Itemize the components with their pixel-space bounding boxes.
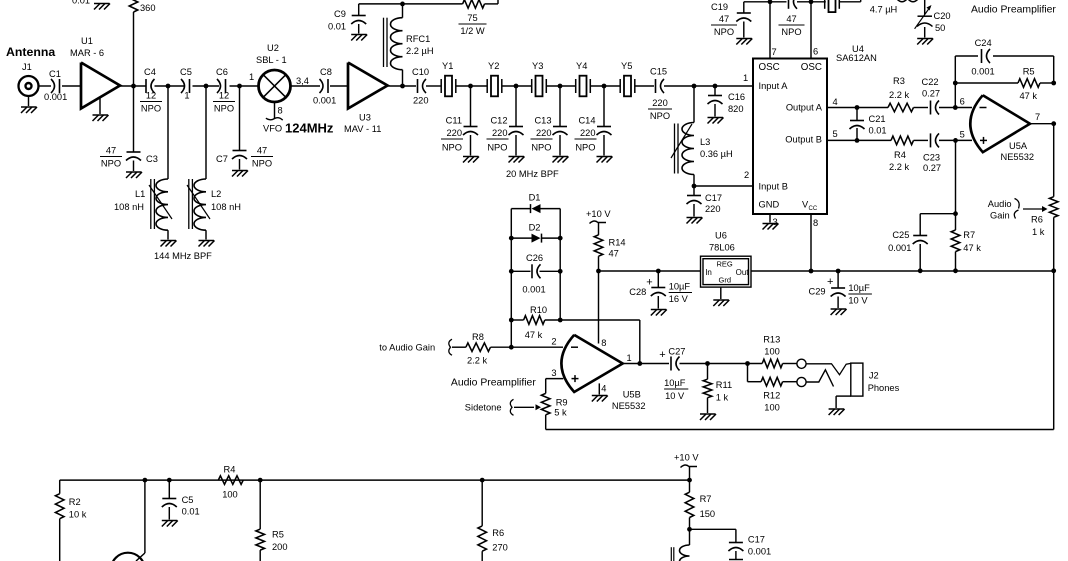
capacitor C7 47 NPO	[216, 146, 273, 169]
ground (U5B pin 4)	[592, 396, 608, 402]
pin 6 label (U5A)	[960, 97, 965, 107]
svg-text:220: 220	[705, 204, 721, 214]
svg-text:2.2 k: 2.2 k	[889, 162, 910, 172]
svg-text:100: 100	[764, 403, 780, 413]
wire Y3 to Y4	[546, 85, 575, 87]
wire U4 pin 4 to R3	[827, 97, 888, 108]
wire node to C3	[133, 86, 135, 152]
junction U5B pin2 node	[509, 345, 514, 350]
svg-text:J2: J2	[869, 371, 879, 381]
svg-text:0.27: 0.27	[922, 89, 940, 99]
wire C26 row	[511, 270, 560, 272]
wire node to C11	[470, 86, 472, 126]
svg-text:Grd: Grd	[719, 276, 732, 285]
svg-text:4.7 µH: 4.7 µH	[870, 5, 898, 15]
capacitor C23 0.27	[923, 133, 941, 173]
wire bottom return rail	[546, 429, 1054, 431]
svg-text:L2: L2	[211, 189, 221, 199]
capacitor C28 10uF 16V	[629, 276, 692, 304]
resistor R4 100 (bottom)	[218, 465, 243, 500]
wire U5A output	[1030, 123, 1054, 125]
junction R7b rail	[687, 478, 692, 483]
svg-text:C25: C25	[892, 230, 909, 240]
ground (C28)	[651, 296, 667, 316]
junction U1 output node	[131, 84, 136, 89]
pin 8 label (U5B)	[601, 338, 606, 348]
wire C22 to U5A pin 6	[939, 107, 972, 109]
wire J1 to C1	[39, 85, 52, 87]
svg-text:47 k: 47 k	[1020, 91, 1038, 101]
svg-text:R3: R3	[893, 76, 905, 86]
capacitor C15 220 NPO	[648, 67, 672, 122]
pin 2 label (U4)	[744, 170, 749, 180]
capacitor C21 0.01	[850, 114, 887, 136]
wire U5B pin 4 stub	[598, 383, 600, 394]
capacitor C22 0.27	[922, 77, 941, 115]
junction R10 left	[509, 318, 514, 323]
inductor L1 108 nH	[114, 179, 172, 230]
svg-text:47 k: 47 k	[525, 330, 543, 340]
junction C15/L3 node	[692, 84, 697, 89]
wire C28 stem	[657, 271, 659, 287]
svg-text:R7: R7	[700, 494, 712, 504]
svg-text:OSC: OSC	[759, 62, 780, 73]
label U5B NE5532	[612, 390, 646, 411]
wire R4 to C23	[914, 139, 929, 141]
op-amp U5A NE5532	[970, 95, 1034, 162]
svg-text:Input B: Input B	[759, 182, 788, 192]
junction R6 rail	[1051, 268, 1056, 273]
svg-text:NPO: NPO	[487, 143, 507, 153]
crystal Y2	[487, 61, 502, 96]
svg-text:12: 12	[146, 91, 156, 101]
wire C5b stem	[168, 480, 170, 498]
svg-text:+: +	[827, 276, 833, 288]
junction U5A pin6 node	[953, 105, 958, 110]
capacitor C25 0.001	[888, 230, 928, 253]
svg-text:C23: C23	[923, 153, 940, 163]
svg-text:0.01: 0.01	[869, 126, 887, 136]
svg-text:U1: U1	[81, 36, 93, 46]
svg-text:R5: R5	[1023, 67, 1035, 77]
svg-text:R13: R13	[763, 335, 780, 345]
regulator U6 78L06	[701, 256, 752, 287]
supply +10 V (R14)	[586, 209, 611, 224]
svg-text:0.27: 0.27	[923, 163, 941, 173]
svg-text:CC: CC	[809, 206, 818, 212]
junction C4/C5 node	[166, 84, 171, 89]
svg-text:C3: C3	[146, 154, 158, 164]
junction Y4/Y5 node	[602, 84, 607, 89]
svg-text:47: 47	[106, 146, 116, 156]
junction R10 right	[558, 318, 563, 323]
junction pin7 rail	[768, 0, 773, 4]
svg-text:150: 150	[700, 509, 716, 519]
resistor R6 270 (bottom)	[478, 526, 508, 553]
svg-text:R12: R12	[763, 391, 780, 401]
crystal Y5	[620, 61, 635, 96]
svg-text:0.001: 0.001	[522, 285, 545, 295]
junction R5 left	[953, 81, 958, 86]
wire osc rail middle segment	[797, 1, 826, 3]
svg-text:200: 200	[272, 542, 288, 552]
wire node to T1 coil	[689, 529, 691, 545]
svg-text:C17: C17	[705, 193, 722, 203]
ground (J2)	[829, 409, 845, 415]
svg-text:U5A: U5A	[1009, 141, 1028, 151]
ground (top-left bypass cap)	[94, 4, 110, 10]
amplifier U1 MAR-6	[70, 36, 120, 109]
svg-text:RFC1: RFC1	[406, 34, 430, 44]
resistor R8 2.2 k	[466, 332, 491, 366]
resistor R3 2.2 k	[888, 76, 914, 112]
svg-text:820: 820	[728, 104, 744, 114]
capacitor C5 0.01 (bottom)	[162, 495, 200, 517]
ground (L1)	[161, 230, 177, 246]
pin 3 label (U5B)	[551, 368, 556, 378]
ground (C3)	[126, 161, 142, 179]
junction RFC1/U3 output node	[400, 84, 405, 89]
svg-text:8: 8	[278, 106, 283, 116]
ground (U1)	[93, 98, 109, 122]
label Audio Preamplifier (top)	[971, 5, 1056, 16]
wire R3 to C22	[914, 107, 929, 109]
svg-text:+10 V: +10 V	[586, 209, 611, 219]
svg-text:3: 3	[551, 368, 556, 378]
ground (J1)	[21, 96, 37, 113]
svg-text:R6: R6	[1031, 215, 1043, 225]
label VFO 124MHz	[263, 121, 334, 136]
label U6 78L06	[709, 231, 735, 253]
wire R10 row	[511, 319, 640, 321]
wire U5A out down to R6	[1053, 124, 1055, 197]
wire Y5 to C15	[635, 85, 654, 87]
junction C6 output node	[237, 84, 242, 89]
svg-text:0.01: 0.01	[328, 22, 346, 32]
svg-text:0.01: 0.01	[182, 507, 200, 517]
svg-text:+10 V: +10 V	[674, 453, 699, 463]
svg-text:47: 47	[786, 14, 796, 24]
capacitor C27 10uF 10V	[659, 347, 688, 402]
wire C27 to R13	[680, 363, 763, 365]
wire C5/C6 node to L2	[205, 86, 207, 179]
svg-text:R4: R4	[894, 150, 906, 160]
wire R12 branch down	[748, 364, 762, 382]
wire node to C16	[714, 86, 716, 95]
wire node to U4 pin 2	[694, 185, 753, 187]
wire node to C12	[515, 86, 517, 126]
svg-text:R5: R5	[272, 530, 284, 540]
svg-text:10 k: 10 k	[69, 510, 87, 520]
wire R5 feedback	[955, 82, 1053, 84]
wire Y4 to Y5	[590, 85, 620, 87]
svg-text:16 V: 16 V	[669, 294, 689, 304]
junction D2 left	[509, 236, 514, 241]
wire C23 to U5A pin 5	[939, 139, 972, 141]
capacitor C10 220	[412, 67, 429, 106]
wire ring plug contact	[806, 370, 833, 387]
transistor Q1 (partial)	[111, 553, 145, 561]
capacitor C17 bottom plate partial	[729, 559, 743, 561]
wire +10V to R14	[598, 223, 600, 235]
wire node to C14	[603, 86, 605, 126]
svg-text:C29: C29	[809, 287, 826, 297]
jack J2 Phones	[851, 363, 900, 396]
svg-text:220: 220	[652, 98, 668, 108]
wire pin8 to U5B	[598, 271, 600, 344]
capacitor C19 47 NPO	[711, 2, 751, 37]
svg-text:4: 4	[833, 97, 838, 107]
resistor R5 200 (bottom)	[256, 529, 288, 552]
svg-text:220: 220	[446, 128, 462, 138]
pin 6 stub (U4)	[811, 2, 818, 59]
svg-text:R4: R4	[224, 465, 236, 475]
svg-text:220: 220	[536, 128, 552, 138]
svg-text:5 k: 5 k	[554, 408, 567, 418]
resistor R2 10 k	[55, 494, 86, 520]
diode D1	[529, 193, 541, 214]
svg-text:U6: U6	[715, 231, 727, 241]
junction Y1/Y2 node	[468, 84, 473, 89]
svg-text:SBL - 1: SBL - 1	[256, 55, 287, 65]
junction D2 right	[558, 236, 563, 241]
svg-text:C12: C12	[490, 116, 507, 126]
svg-text:C20: C20	[934, 11, 951, 21]
pin 5 label (U5A)	[960, 130, 965, 140]
wire C25 to rail	[919, 244, 921, 271]
wire feedback down to pin 1	[639, 320, 641, 364]
wire J2 ground stub	[836, 396, 851, 408]
wire node to C13	[559, 86, 561, 126]
svg-text:C22: C22	[922, 77, 939, 87]
junction C29 rail	[836, 269, 841, 274]
crystal Y6 (partial, at top edge)	[825, 0, 840, 12]
wire U2 to C8	[291, 85, 321, 87]
resistor R5 47 k	[1018, 67, 1040, 102]
svg-text:R14: R14	[609, 238, 626, 248]
wire R2 down	[59, 519, 61, 561]
resistor 75 ohm 1/2 W	[459, 0, 487, 36]
svg-text:NPO: NPO	[531, 143, 551, 153]
wire R7 to rail	[955, 252, 957, 271]
wire R8 to U5B pin 2	[491, 346, 564, 348]
svg-text:NPO: NPO	[442, 143, 462, 153]
junction Q1 collector rail	[143, 478, 148, 483]
junction Y2/Y3 node	[514, 84, 519, 89]
svg-text:0.001: 0.001	[44, 92, 67, 102]
junction C28 rail	[656, 269, 661, 274]
capacitor C4 12 NPO	[140, 67, 162, 114]
wire R5b down	[259, 550, 261, 561]
svg-text:NPO: NPO	[101, 159, 121, 169]
wire U5B out to C27	[623, 363, 669, 365]
wire node to C17	[693, 186, 695, 195]
wire U1 output to C4	[120, 85, 146, 87]
crystal Y1	[441, 61, 456, 96]
wire C15 node to L3	[693, 86, 695, 123]
capacitor C12 220 NPO	[487, 116, 524, 153]
capacitor C26 0.001	[522, 253, 545, 295]
wire R6b down	[481, 551, 483, 561]
svg-text:+: +	[659, 349, 665, 361]
svg-text:OSC: OSC	[801, 62, 822, 73]
resistor R1 360 (partial at top edge)	[129, 0, 155, 13]
wire C6 to U2 pin 1	[230, 85, 259, 87]
wire C4 to C5	[155, 85, 185, 87]
svg-text:MAR - 6: MAR - 6	[70, 48, 104, 58]
wire node to C17b	[690, 529, 736, 542]
svg-text:7: 7	[1035, 112, 1040, 122]
svg-text:50: 50	[935, 23, 945, 33]
wire pin 3 to R9	[546, 378, 564, 380]
svg-text:0.001: 0.001	[313, 96, 336, 106]
svg-text:Out: Out	[736, 268, 750, 277]
svg-text:C21: C21	[869, 114, 886, 124]
pin 3,4 label (U2)	[296, 76, 309, 86]
svg-text:108 nH: 108 nH	[114, 202, 144, 212]
svg-text:C10: C10	[412, 67, 429, 77]
svg-text:0.001: 0.001	[888, 243, 911, 253]
wire C24 feedback top	[955, 56, 1053, 108]
wire C10 to Y1	[426, 85, 441, 87]
svg-text:1 k: 1 k	[1032, 227, 1045, 237]
wire +6V rail right segment	[751, 270, 1054, 272]
capacitor C1 0.001	[44, 69, 67, 102]
svg-text:Audio Preamplifier: Audio Preamplifier	[971, 5, 1056, 16]
junction L3/C17 node	[692, 184, 697, 189]
wire C1 to U1	[62, 85, 81, 87]
wire bottom schematic rail	[60, 480, 690, 494]
svg-text:C27: C27	[668, 347, 685, 357]
wire +10V to rail (bottom)	[689, 467, 691, 481]
wire C15 to U4 pin 1	[664, 85, 753, 87]
junction R5 right	[1051, 81, 1056, 86]
wire R1-360 to U1 output node	[133, 12, 135, 86]
capacitor C17 0.001 (bottom)	[728, 535, 771, 557]
svg-text:10µF: 10µF	[669, 282, 691, 292]
svg-text:47: 47	[719, 14, 729, 24]
svg-text:360: 360	[140, 3, 156, 13]
supply +10 V (bottom)	[674, 453, 699, 468]
ground (C16)	[708, 104, 724, 124]
wire L3 bottom to pin2 node	[693, 175, 695, 187]
svg-text:C6: C6	[216, 67, 228, 77]
diode D2	[529, 223, 542, 243]
capacitor C2 (partial, 0.01 bypass at top edge)	[72, 0, 90, 6]
resistor R13 100	[762, 335, 782, 368]
svg-text:C16: C16	[728, 92, 745, 102]
svg-text:to Audio Gain: to Audio Gain	[379, 343, 435, 353]
pin 8 stub (U4)	[811, 214, 818, 271]
wire D1 row	[511, 208, 560, 210]
svg-text:Y4: Y4	[576, 61, 587, 71]
svg-text:C11: C11	[446, 116, 462, 126]
svg-text:3,4: 3,4	[296, 76, 309, 86]
svg-text:NPO: NPO	[252, 159, 272, 169]
junction C21 bottom	[855, 138, 860, 143]
resistor R12 100	[761, 377, 783, 412]
pin 1 label (U4)	[743, 73, 748, 83]
wire ladder right vertical	[559, 209, 561, 320]
svg-text:+: +	[646, 276, 652, 288]
svg-text:C19: C19	[711, 2, 728, 12]
wire node to C7	[239, 86, 241, 150]
svg-text:2.2 k: 2.2 k	[889, 90, 910, 100]
svg-text:108 nH: 108 nH	[211, 202, 241, 212]
svg-text:220: 220	[492, 128, 508, 138]
resistor R4 2.2 k	[889, 136, 914, 172]
wire 75 ohm to top edge	[485, 0, 499, 4]
capacitor C6 12 NPO	[213, 67, 235, 114]
potentiometer R6 1 k	[1023, 197, 1058, 237]
svg-text:C4: C4	[144, 67, 156, 77]
svg-text:100: 100	[764, 347, 780, 357]
tip plug circle (J2)	[797, 359, 806, 368]
svg-text:47: 47	[257, 146, 267, 156]
capacitor C16 820	[708, 92, 746, 114]
wire R7 top	[955, 214, 957, 230]
svg-text:L3: L3	[700, 137, 710, 147]
junction U5A output node	[1051, 121, 1056, 126]
ground (U6)	[713, 300, 729, 306]
svg-text:R7: R7	[963, 230, 975, 240]
svg-text:Y3: Y3	[532, 61, 543, 71]
junction R6b rail	[480, 478, 485, 483]
capacitor C24 0.001	[971, 38, 994, 77]
wire R14 to rail junction	[598, 256, 600, 271]
svg-text:C1: C1	[49, 69, 61, 79]
svg-text:220: 220	[580, 128, 596, 138]
svg-text:Antenna: Antenna	[6, 45, 55, 59]
wire C21 vertical	[856, 108, 858, 121]
crystal Y4	[576, 61, 591, 96]
wire pin5 node down	[955, 140, 957, 213]
wire top supply rail	[359, 4, 463, 16]
capacitor C8 0.001	[313, 67, 336, 106]
capacitor C14 220 NPO	[575, 116, 612, 153]
junction R7 rail	[953, 268, 958, 273]
label Audio Gain	[988, 199, 1019, 221]
svg-text:Sidetone: Sidetone	[465, 403, 502, 413]
svg-text:2.2 µH: 2.2 µH	[406, 46, 434, 56]
svg-text:U2: U2	[267, 43, 279, 53]
wire C5 to C6	[193, 85, 220, 87]
ground (C7)	[232, 159, 248, 177]
wire osc rail C19 segment	[744, 2, 787, 13]
potentiometer R9 5 k	[514, 393, 568, 417]
svg-text:Audio: Audio	[988, 199, 1012, 209]
wire C21 to pin5 wire	[856, 128, 858, 140]
svg-text:C13: C13	[534, 116, 551, 126]
inductor L2 108 nH	[187, 179, 241, 230]
svg-text:0.001: 0.001	[748, 547, 771, 557]
svg-text:NPO: NPO	[141, 104, 161, 114]
svg-text:8: 8	[813, 218, 818, 228]
svg-text:6: 6	[813, 47, 818, 57]
wire +6V rail left segment	[599, 270, 701, 272]
svg-text:Audio Preamplifier: Audio Preamplifier	[451, 378, 536, 389]
junction C26 right	[558, 269, 563, 274]
ground (R11)	[700, 398, 716, 420]
svg-text:1/2 W: 1/2 W	[460, 26, 485, 36]
svg-text:R6: R6	[492, 528, 504, 538]
ground (C29)	[831, 297, 847, 316]
svg-text:5: 5	[833, 129, 838, 139]
resistor R14 47	[594, 235, 625, 259]
inductor L3 0.36 uH	[671, 123, 733, 175]
wire Y2 to Y3	[502, 85, 532, 87]
wire osc rail right segment	[839, 0, 860, 2]
